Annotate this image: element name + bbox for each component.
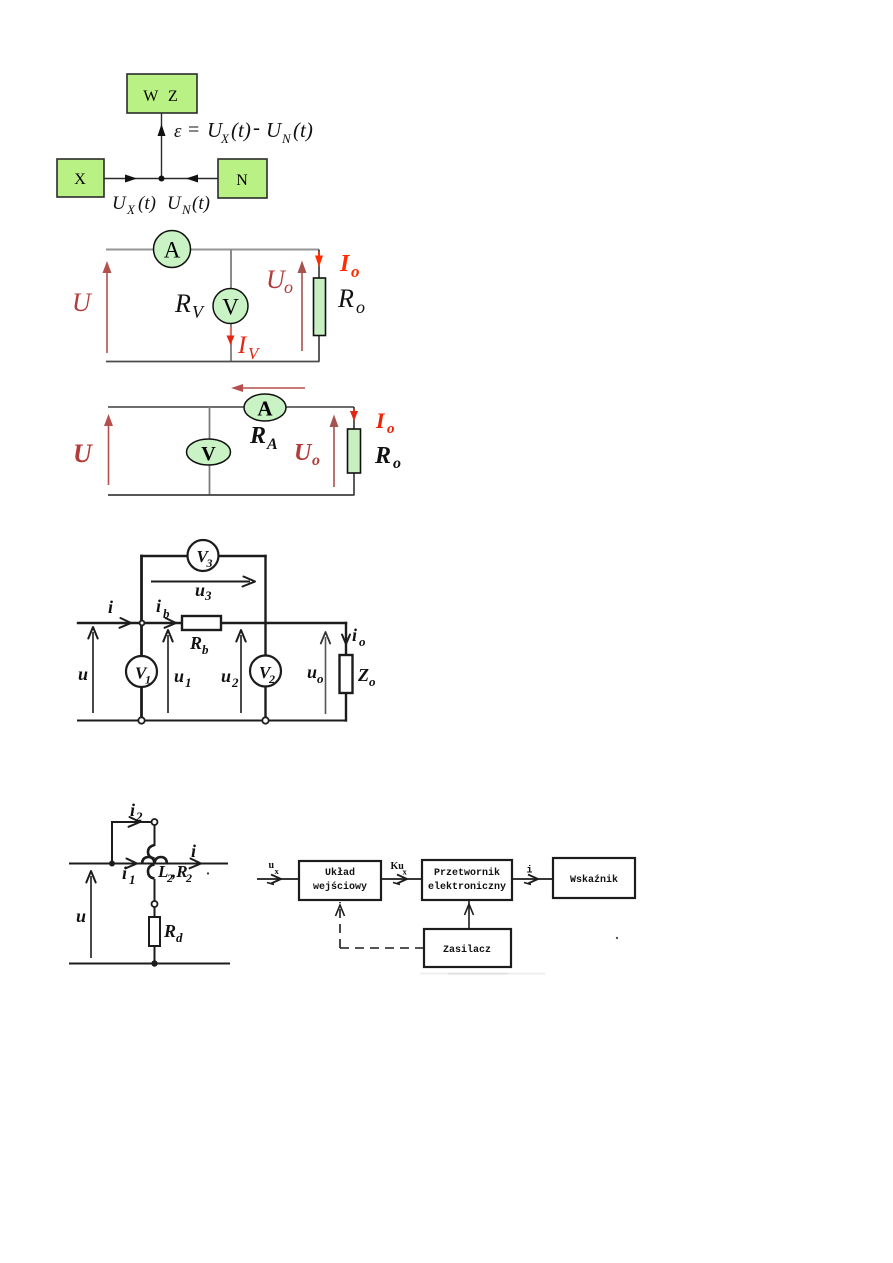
arrow u2 (221, 630, 246, 713)
wire left branch vertical (140, 556, 143, 721)
svg-text:o: o (359, 634, 366, 649)
label ux (269, 860, 280, 876)
block Zasilacz (424, 929, 511, 967)
wire V2 branch vertical (264, 623, 266, 721)
voltmeter V2 (187, 439, 231, 465)
svg-text:U: U (167, 193, 182, 214)
svg-text:R: R (174, 289, 191, 318)
svg-text:U: U (266, 118, 283, 142)
arrow i (output) (190, 841, 202, 868)
svg-text:1: 1 (129, 872, 136, 887)
label IV (237, 332, 261, 363)
svg-text:U: U (73, 439, 93, 468)
svg-text:2: 2 (268, 672, 275, 686)
block N (218, 159, 267, 198)
svg-text:2: 2 (185, 871, 192, 885)
svg-text:3: 3 (204, 588, 212, 603)
svg-text:A: A (266, 436, 278, 453)
svg-text:Wskaźnik: Wskaźnik (570, 874, 618, 886)
wire terminal to Rd (154, 907, 156, 917)
block Przetwornik elektroniczny (422, 860, 512, 900)
wire main horizontal (78, 622, 346, 624)
svg-text:i: i (156, 596, 161, 616)
resistor Ro2 (348, 429, 361, 473)
svg-text:1: 1 (145, 673, 151, 687)
svg-text:3: 3 (206, 556, 213, 570)
svg-text:R: R (249, 423, 266, 449)
node main-left junction (140, 621, 145, 626)
svg-text:ε: ε (174, 121, 182, 142)
svg-text:A: A (164, 238, 181, 263)
svg-text:X: X (74, 171, 86, 188)
svg-text:u: u (195, 580, 205, 600)
arrow IV (red) (230, 327, 232, 337)
wire from top terminal down (154, 825, 156, 845)
label Io (339, 251, 360, 281)
svg-text:N: N (236, 172, 248, 189)
svg-text:(t): (t) (192, 193, 210, 214)
svg-text:N: N (281, 131, 292, 146)
svg-text:V: V (192, 302, 205, 322)
svg-text:u: u (76, 906, 86, 926)
arrow uo (307, 632, 330, 714)
svg-text:o: o (369, 674, 376, 689)
svg-text:wejściowy: wejściowy (313, 881, 367, 893)
svg-text:I: I (339, 251, 351, 277)
terminal top (open circle) (152, 819, 158, 825)
svg-text:(t): (t) (231, 118, 251, 142)
label UX(t) (112, 193, 156, 217)
scan smudge under Zasilacz (420, 973, 545, 975)
arrow u1 (163, 630, 191, 713)
wire top loop right vertical (264, 556, 266, 623)
svg-text:R: R (337, 284, 354, 313)
dashed wire Zasilacz to Uklad (340, 902, 424, 948)
label epsilon equation (174, 115, 313, 146)
arrow U (106, 264, 108, 353)
svg-text:u: u (78, 664, 88, 684)
svg-text:I: I (237, 332, 248, 359)
svg-text:1: 1 (185, 675, 192, 690)
ammeter A1 (154, 231, 191, 268)
stray speck (207, 872, 209, 874)
label Uo (266, 265, 293, 297)
svg-text:b: b (202, 642, 209, 657)
svg-text:i: i (108, 597, 113, 617)
wire top loop horizontal (142, 555, 266, 557)
label Uo2 (294, 440, 320, 469)
arrow i to Wskaznik (512, 875, 553, 885)
dashed arrow head up (336, 905, 345, 916)
node junction dot (159, 176, 165, 182)
arrow i (input current) (108, 597, 131, 628)
arrow left from N (186, 175, 198, 183)
label UN(t) (167, 193, 210, 217)
voltmeter V1 (126, 656, 157, 687)
svg-text:i: i (130, 800, 135, 820)
svg-text:b: b (163, 606, 170, 621)
svg-text:d: d (176, 930, 183, 945)
label RV (174, 289, 205, 322)
svg-text:W Z: W Z (143, 88, 181, 105)
wire right branch (353, 407, 355, 429)
wire bottom (106, 361, 320, 363)
arrow i1 (122, 859, 137, 888)
arrow i2 (129, 800, 144, 827)
node bottom-mid terminal (262, 717, 268, 723)
arrow Io2 (red) (353, 409, 355, 413)
stray dot (616, 937, 618, 939)
label Io2 (375, 408, 395, 437)
arrow u (76, 871, 96, 958)
node bottom-left terminal (138, 717, 144, 723)
svg-text:o: o (284, 277, 293, 297)
label RA (249, 423, 278, 453)
arrow Io (red) (318, 252, 320, 258)
wire coil to lower terminal (154, 880, 156, 901)
svg-text:o: o (312, 452, 320, 469)
svg-text:i: i (527, 865, 533, 877)
wire top (106, 249, 319, 251)
wire middle vertical (209, 407, 211, 495)
svg-text:N: N (181, 202, 192, 217)
node main-left junction dot (109, 861, 115, 867)
node bottom junction dot (151, 960, 157, 966)
wire bottom (108, 494, 355, 496)
arrow Kux (381, 875, 422, 885)
svg-text:U: U (112, 193, 127, 214)
svg-text:u: u (174, 666, 184, 686)
svg-text:i: i (122, 863, 127, 883)
svg-text:Przetwornik: Przetwornik (434, 867, 500, 879)
svg-text:R: R (163, 921, 176, 941)
arrow Zasilacz to Przetwornik (465, 901, 474, 929)
wire main horizontal (70, 863, 227, 865)
wire top loop left vertical (111, 822, 113, 864)
svg-text:U: U (72, 288, 93, 317)
svg-text:x: x (403, 867, 408, 877)
wire X to node (104, 178, 218, 180)
voltmeter V1 (213, 289, 248, 324)
svg-text:o: o (356, 297, 365, 317)
arrow Uo (301, 264, 303, 351)
voltmeter V3 (188, 540, 219, 571)
wire Rd to bottom (154, 946, 156, 964)
svg-text:i: i (191, 841, 196, 861)
label Ro (337, 284, 365, 317)
wire vertical to WZ (161, 113, 163, 179)
terminal mid (open circle) (152, 901, 158, 907)
svg-text:-: - (253, 115, 260, 139)
svg-text:R: R (374, 443, 391, 469)
svg-text:A: A (257, 397, 273, 421)
wire top (108, 406, 354, 408)
arrow Uo2 (333, 418, 335, 487)
svg-text:i: i (352, 625, 357, 645)
svg-text:o: o (317, 671, 324, 686)
svg-text:x: x (275, 866, 280, 876)
svg-text:Z: Z (357, 665, 369, 685)
arrow ib (156, 596, 176, 628)
svg-text:o: o (351, 262, 360, 281)
wire top loop horizontal (112, 821, 151, 823)
resistor Ro (314, 278, 326, 336)
arrow ux input (257, 875, 299, 885)
svg-text:u: u (307, 662, 317, 682)
resistor Rd (149, 917, 183, 946)
svg-text:V: V (222, 295, 239, 320)
arrow right from X (125, 175, 137, 183)
svg-text:(t): (t) (293, 118, 313, 142)
block Wskaznik (553, 858, 635, 898)
svg-text:Układ: Układ (325, 867, 355, 879)
wire middle vertical (230, 250, 232, 362)
svg-text:X: X (220, 131, 230, 146)
arrow up into WZ (158, 124, 166, 136)
svg-text:X: X (126, 202, 136, 217)
impedance Zo (340, 655, 377, 693)
arrow current left (top) (236, 387, 305, 389)
arrow u3 (151, 577, 255, 604)
ammeter A2 (244, 394, 286, 421)
svg-text:elektroniczny: elektroniczny (428, 881, 506, 893)
svg-text:o: o (387, 421, 395, 437)
wire bottom horizontal (78, 720, 346, 722)
block X (57, 159, 104, 197)
label Ro2 (374, 443, 401, 472)
wire right branch Zo (345, 623, 347, 655)
svg-text:R: R (189, 633, 202, 653)
svg-text:2: 2 (231, 675, 239, 690)
svg-text:=: = (188, 119, 199, 141)
svg-text:o: o (393, 455, 401, 472)
wire right branch (318, 250, 320, 279)
arrow u (78, 627, 98, 713)
label Kux (391, 861, 408, 877)
resistor Rb (182, 616, 221, 657)
label L2,R2 (157, 862, 192, 885)
svg-text:Zasilacz: Zasilacz (443, 944, 491, 956)
wire bottom horizontal (70, 963, 229, 965)
block WZ (127, 74, 197, 113)
block Uklad wejsciowy (299, 861, 381, 900)
svg-text:I: I (375, 408, 386, 433)
svg-text:(t): (t) (138, 193, 156, 214)
voltmeter V2 (250, 656, 281, 687)
arrow U2 (108, 418, 110, 485)
svg-text:u: u (221, 666, 231, 686)
inductor coil L2,R2 (142, 845, 167, 879)
svg-text:U: U (294, 440, 313, 466)
svg-text:2: 2 (135, 809, 143, 824)
arrow io (342, 625, 366, 649)
svg-text:V: V (201, 443, 216, 465)
svg-text:V: V (248, 344, 261, 363)
